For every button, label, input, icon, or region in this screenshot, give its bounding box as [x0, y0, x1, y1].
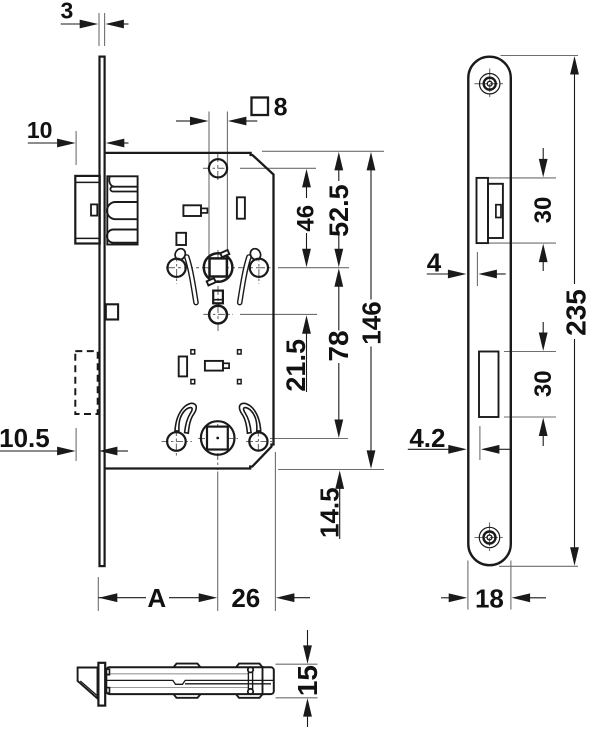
tiny square bottom-right [238, 380, 242, 384]
crosshair upper right circle vertical [258, 255, 260, 285]
cylinder circle [209, 306, 227, 324]
upper left spring arm tail [187, 257, 196, 303]
lower left screw circle [167, 432, 186, 451]
bottom screw hole outer [479, 527, 499, 547]
arrow dim10 right [106, 139, 125, 148]
crosshair latch circle [203, 167, 228, 169]
upper left spring arm loop [173, 247, 187, 262]
crosshair top screw [474, 83, 504, 85]
ext line lower follower [270, 438, 348, 440]
arrow dim78 bottom [334, 420, 343, 439]
arrow dim10 left [57, 139, 76, 148]
case tab bottom left [174, 694, 201, 698]
dim 4.2 line [408, 448, 450, 450]
ext line dim10.5 [75, 428, 77, 461]
bottom view case outline [106, 667, 273, 694]
dim 10 line [28, 142, 59, 144]
dim 4 line [427, 273, 450, 275]
arrow dim78 top [334, 268, 343, 287]
latch opening left part [477, 178, 489, 243]
crosshair upper left circle vertical [176, 255, 178, 285]
arrow dim52.5 top [334, 152, 343, 171]
top screw center mark [487, 81, 492, 86]
crosshair lower follower horizontal [198, 438, 238, 440]
part mid vertical rect [179, 357, 187, 377]
latch guide notch [91, 204, 97, 215]
ext line body bottom [278, 469, 384, 471]
lower follower circle [201, 421, 235, 455]
centerline upper row horizontal [166, 267, 271, 269]
upper right spring arm loop [248, 247, 262, 262]
bottom screw hole inner bold [484, 532, 496, 544]
lower right screw circle [249, 432, 267, 450]
latch opening right part [488, 184, 503, 238]
arrow dim10.5 left [57, 447, 76, 456]
part small rect above-left of spindle [176, 233, 186, 245]
spindle square 8mm [210, 258, 227, 276]
ext line latch hole bottom [488, 242, 556, 244]
arrow dimA left [99, 593, 118, 602]
ext line spindle center [278, 267, 349, 269]
case tab top left [174, 664, 201, 668]
lower follower center dot [216, 437, 219, 440]
dim 15 line [307, 630, 309, 648]
latch head bevel line bottom [75, 237, 99, 239]
ext line plate bottom [499, 565, 578, 567]
screw post bottom [248, 689, 253, 694]
bottom view faceplate bar [98, 663, 105, 706]
svg-text:146: 146 [356, 301, 386, 344]
case center seam with notch [106, 680, 273, 684]
ext line box bottom [504, 416, 556, 418]
ext line cylinder circle [240, 313, 317, 315]
case divider near right end [262, 666, 264, 695]
faceplate side view [100, 57, 105, 566]
ext line body top [262, 150, 384, 152]
ext line dim18 right [510, 561, 512, 610]
comb tooth band C [107, 230, 138, 243]
svg-text:3: 3 [61, 0, 74, 23]
arrow dim15 top [303, 645, 312, 664]
arrow dim14.5 [335, 470, 344, 489]
dim 235 line [574, 73, 576, 284]
lower follower square [207, 427, 228, 450]
ext line dim4 [476, 252, 478, 286]
dim 21.5 vertical [306, 332, 308, 392]
svg-text:21.5: 21.5 [281, 339, 311, 392]
arrow dim18 right [512, 593, 530, 602]
ext line A right lock centerline extension [217, 472, 219, 612]
svg-text:14.5: 14.5 [314, 487, 344, 538]
top screw hole inner bold [484, 78, 496, 90]
crosshair cylinder circle horizontal [203, 313, 233, 315]
ext line dim8 left [208, 112, 210, 259]
ext line latch hole top [488, 177, 556, 179]
dim 30 upper line [542, 148, 544, 161]
lower right spring arm hairpin [239, 403, 260, 433]
svg-text:10: 10 [27, 117, 53, 143]
dim 146 vertical [370, 169, 372, 300]
part mid key tab [205, 361, 223, 371]
case tab bottom right [236, 694, 263, 698]
latch spring comb outer box [107, 176, 137, 244]
deadbolt dashed thrown position [75, 351, 97, 414]
arrow dim18 left [449, 593, 468, 602]
arrow dim4.2 left [448, 445, 467, 454]
dim 10.5 line [0, 450, 59, 452]
arrow dim4 left [448, 270, 467, 279]
arrow dim21.5 [302, 315, 311, 334]
svg-text:235: 235 [560, 289, 589, 336]
top screw hole outer [480, 74, 500, 94]
svg-text:52.5: 52.5 [324, 184, 354, 237]
crosshair bottom screw [474, 537, 504, 539]
ext line dim3 left [98, 13, 100, 46]
case lower seam right part [185, 683, 271, 685]
crosshair lower follower vertical [217, 424, 219, 470]
arrow dim3 left [80, 20, 99, 29]
arrow dim146 top [367, 152, 376, 171]
cylinder plug square [213, 291, 223, 304]
tiny square bottom-left [191, 380, 195, 384]
rivet nub top [105, 669, 109, 674]
ext line dim3 right [104, 13, 106, 46]
part key tab left [183, 205, 201, 216]
ext line case top [276, 663, 318, 665]
comb tooth band A [110, 187, 137, 192]
svg-text:15: 15 [292, 665, 323, 696]
ext line A left [97, 577, 99, 611]
part vertical rect right [237, 197, 245, 218]
square glyph for dim 8 [252, 98, 269, 116]
spindle clip tab top right [220, 250, 229, 257]
ext line dim18 left [467, 561, 469, 610]
arrow dim8 right [228, 117, 247, 126]
deadbolt opening [479, 352, 499, 418]
latch bolt head [75, 176, 99, 244]
dim 8 line [176, 120, 192, 122]
arrow dim46 top [302, 169, 311, 188]
arrow dim46 bottom [302, 249, 311, 268]
svg-text:4: 4 [427, 247, 442, 277]
dim 78 vertical [338, 286, 340, 331]
svg-text:30: 30 [530, 370, 557, 397]
ext line plate top [501, 55, 579, 57]
dim 14.5 vertical [339, 487, 341, 539]
tiny square top-right [238, 350, 242, 354]
arrow 30b top [539, 333, 548, 352]
case tab top right [236, 664, 263, 668]
centerline spindle-cylinder vertical [217, 250, 219, 331]
ext line 26 right [274, 452, 276, 611]
svg-text:26: 26 [231, 583, 260, 613]
arrow dim4 right [478, 270, 497, 279]
ext line case bottom [276, 697, 318, 699]
faint case inner line bottom [107, 687, 248, 689]
crosshair lower right circle [246, 441, 272, 443]
upper right spring arm tail [240, 257, 249, 303]
svg-text:78: 78 [323, 330, 354, 361]
arrow dim4.2 right [481, 445, 500, 454]
arrow dimA right shared dim26 [199, 593, 218, 602]
upper left handle spring circle [168, 259, 186, 277]
svg-text:10.5: 10.5 [0, 423, 50, 453]
screw post connecting lines [247, 672, 249, 689]
arrow 235 bottom [570, 547, 579, 566]
arrow dim52.5 bottom [334, 249, 343, 268]
bottom view latch wedge [78, 668, 98, 699]
arrow dim146 bottom [367, 450, 376, 469]
ext line dim8 right [226, 112, 228, 259]
svg-text:4.2: 4.2 [409, 423, 445, 453]
dim 30 lower line [542, 322, 544, 335]
upper right handle spring circle [250, 259, 268, 277]
centerline latch vertical [217, 153, 219, 183]
dim A line [98, 597, 146, 599]
arrow 30a top [539, 159, 548, 178]
arrow dim3 right [105, 20, 124, 29]
rivet nub bottom [105, 688, 109, 693]
faint case inner line top [107, 673, 248, 675]
latch opening nub [496, 205, 501, 218]
dim 3 line [61, 23, 81, 25]
arrow 30a bottom [539, 244, 548, 263]
lock body outline [105, 153, 274, 469]
svg-text:A: A [147, 583, 166, 613]
ext line latch circle [240, 167, 316, 169]
latch head bevel line top [75, 181, 99, 183]
comb corner fillet top-left [109, 177, 114, 187]
dim 26 tail line [293, 597, 311, 599]
stop square on body front edge [106, 304, 118, 319]
spindle clip tab bottom left [207, 278, 216, 285]
comb tooth band B [107, 202, 138, 219]
tiny square top-left [191, 350, 195, 354]
ext line dim10 [75, 131, 77, 165]
svg-text:30: 30 [530, 197, 557, 224]
bottom screw center mark [487, 535, 492, 540]
lower left spring arm hairpin [175, 403, 196, 433]
arrow 30b bottom [539, 418, 548, 437]
latch wedge inner line [80, 681, 97, 696]
arrow dim8 left [190, 117, 209, 126]
dim 18 line [441, 597, 451, 599]
dim 52.5 vertical [338, 169, 340, 181]
dim 46 vertical [306, 186, 308, 199]
arrow dim26 right [276, 593, 295, 602]
svg-text:46: 46 [293, 205, 320, 232]
arrow dim10.5 right [99, 447, 118, 456]
screw post top [248, 667, 253, 672]
svg-text:8: 8 [274, 94, 288, 122]
arrow dim15 bottom [303, 698, 312, 717]
strike plate outline [468, 57, 511, 566]
ext line dim4.2 [479, 426, 481, 460]
crosshair lower left circle [162, 441, 193, 443]
svg-text:18: 18 [475, 583, 504, 613]
arrow 235 top [570, 56, 579, 75]
ext line box top [504, 351, 556, 353]
latch follower circle [209, 159, 227, 177]
spindle follower outer circle [204, 253, 233, 282]
